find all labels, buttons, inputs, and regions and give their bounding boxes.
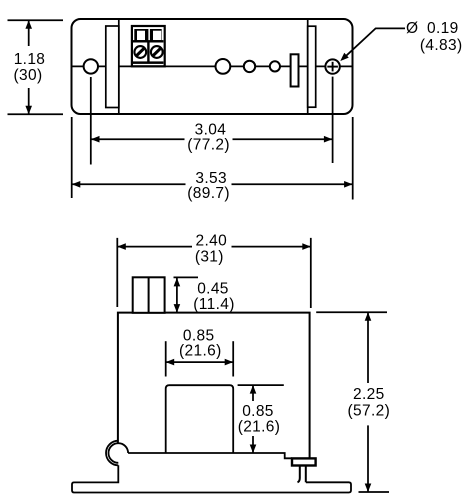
center hole B (244, 61, 255, 72)
left foot (72, 465, 351, 492)
right slot (308, 26, 316, 107)
horizontal centerline (72, 65, 352, 67)
svg-text:2.40: 2.40 (196, 233, 228, 250)
extension line right hole (332, 77, 334, 163)
DIN latch T-bracket (292, 458, 316, 482)
terminal block TB1 (132, 26, 165, 66)
jumper bar (291, 54, 299, 86)
svg-text:(31): (31) (195, 249, 224, 266)
extension line left hole (90, 77, 92, 165)
dimension 2.25 (57.2) (316, 312, 390, 492)
svg-text:(77.2): (77.2) (187, 137, 230, 154)
extension line body left (71, 117, 73, 198)
svg-text:(30): (30) (14, 67, 43, 84)
terminal screw right (151, 46, 163, 58)
svg-text:(57.2): (57.2) (348, 402, 391, 419)
right joint line (307, 19, 309, 114)
svg-text:1.18: 1.18 (14, 51, 46, 68)
center hole C (270, 61, 280, 71)
svg-text:(21.6): (21.6) (238, 419, 281, 436)
center hole A (216, 59, 231, 74)
svg-text:(89.7): (89.7) (187, 185, 230, 202)
dimension 3.53 (89.7) (72, 170, 353, 202)
dimension 0.45 (11.4) (174, 277, 235, 312)
terminal screw left (134, 46, 146, 58)
DIN hook ring (106, 441, 128, 466)
svg-text:Ø0.19: Ø0.19 (406, 20, 459, 37)
left joint line (118, 19, 120, 114)
svg-text:(21.6): (21.6) (179, 343, 222, 360)
svg-text:(4.83): (4.83) (420, 37, 463, 54)
svg-text:2.25: 2.25 (353, 386, 385, 403)
dimension 0.85 (21.6) width (166, 327, 234, 376)
leader diameter 0.19 (4.83) (338, 20, 462, 64)
extension line body right (352, 117, 354, 200)
terminal block front view (133, 277, 165, 313)
left slot (106, 26, 119, 108)
front view body outline (118, 313, 310, 459)
svg-text:(11.4): (11.4) (193, 296, 234, 313)
top view body outline (72, 19, 353, 114)
left mounting hole (84, 59, 98, 73)
dimension 3.04 (77.2) (91, 122, 332, 154)
dimension 2.40 (31) (117, 233, 310, 308)
dimension 0.85 (21.6) height (238, 385, 284, 453)
dimension 1.18 (30) (8, 20, 64, 114)
right mounting hole with cross (325, 59, 339, 73)
sensing window (166, 385, 234, 453)
front body bottom edge with step (128, 453, 292, 458)
